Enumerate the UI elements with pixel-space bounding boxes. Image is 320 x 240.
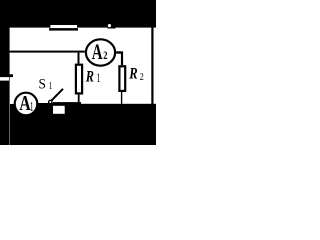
svg-text:R: R (85, 67, 94, 85)
resistor R1 box (76, 65, 82, 94)
bottom black margin middle part (53, 102, 81, 145)
wire A2 right horizontal (116, 51, 123, 53)
resistor slot bottom border strip (49, 28, 78, 31)
switch S1 pivot (49, 100, 52, 103)
top black bar (top wire band) (0, 0, 156, 28)
bottom black margin right part (81, 104, 156, 145)
wire A1 to switch pivot (36, 103, 53, 106)
wire main horizontal left (to A2) (10, 51, 85, 53)
resistor R2 box (119, 66, 125, 91)
black bump under top bar at dot (108, 27, 116, 28)
svg-text:2: 2 (140, 72, 144, 83)
svg-text:1: 1 (97, 71, 101, 85)
resistor slot in top bar (white window) (50, 25, 77, 28)
wire R2 top stub (121, 52, 123, 65)
wire R1 bottom stub (78, 95, 80, 103)
white pivot dot in top bar (108, 24, 111, 27)
svg-text:A: A (92, 40, 103, 64)
ammeter A1 circle (15, 93, 38, 116)
svg-text:2: 2 (103, 48, 107, 62)
svg-text:1: 1 (49, 80, 53, 92)
wire right vertical (151, 26, 153, 104)
svg-text:S: S (39, 77, 46, 93)
white slot in bottom margin (53, 106, 65, 114)
wire R1 top stub (78, 53, 80, 64)
svg-text:1: 1 (30, 99, 34, 114)
switch S1 lever (52, 89, 64, 101)
ammeter A2 circle (86, 39, 115, 65)
svg-text:R: R (128, 64, 137, 83)
battery gap notch (0, 77, 9, 81)
wire R2 bottom stub (121, 92, 122, 104)
bottom black margin left part (10, 104, 53, 145)
battery plate tick (9, 74, 13, 77)
wire left bus (thick black left bar) (0, 0, 10, 145)
